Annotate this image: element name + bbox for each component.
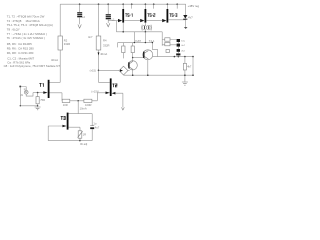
svg-text:332R: 332R (64, 42, 70, 46)
svg-text:Tb : 4T41h ( 3x 3x5 720MHz ): Tb : 4T41h ( 3x 3x5 720MHz ) (7, 36, 45, 40)
svg-text:75R: 75R (40, 98, 45, 102)
svg-text:4u7: 4u7 (181, 45, 185, 47)
svg-text:4k7: 4k7 (187, 65, 192, 68)
svg-text:1R: 1R (83, 132, 86, 136)
svg-text:J1: J1 (20, 93, 23, 97)
svg-text:R2: R2 (64, 38, 68, 42)
svg-text:R4: R4 (103, 38, 107, 42)
svg-text:1u: 1u (93, 121, 96, 125)
svg-text:2k2: 2k2 (181, 51, 185, 53)
svg-text:L2: L2 (82, 15, 85, 19)
svg-text:40mA: 40mA (100, 52, 107, 56)
svg-text:+48V reg: +48V reg (188, 4, 200, 8)
svg-text:Rt adj: Rt adj (80, 142, 87, 146)
svg-text:(+15V: (+15V (91, 89, 98, 93)
svg-text:40mA: 40mA (51, 58, 58, 62)
svg-text:4V7: 4V7 (188, 16, 193, 20)
svg-text:4u7: 4u7 (95, 126, 100, 130)
svg-text:4n7: 4n7 (88, 35, 93, 39)
svg-text:7u87: 7u87 (135, 39, 141, 43)
svg-text:10u: 10u (181, 41, 185, 43)
svg-text:10R: 10R (63, 103, 68, 107)
svg-text:332R: 332R (103, 44, 109, 48)
svg-text:T4-1: T4-1 (149, 39, 155, 43)
svg-text:(+15): (+15) (90, 69, 96, 73)
svg-text:C8 : 1uF Polystyrene, 75x3 6MT: C8 : 1uF Polystyrene, 75x3 6MT Stellate … (4, 64, 61, 68)
svg-text:10mA: 10mA (80, 107, 87, 111)
svg-text:100R: 100R (85, 103, 91, 107)
svg-text:Rb, R8 : CJ R31 280: Rb, R8 : CJ R31 280 (7, 51, 34, 55)
